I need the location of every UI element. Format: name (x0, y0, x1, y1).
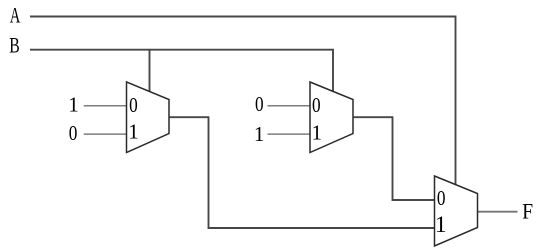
svg-text:1: 1 (435, 212, 447, 238)
svg-text:B: B (9, 32, 20, 57)
svg-text:0: 0 (129, 93, 138, 117)
svg-text:0: 0 (69, 121, 78, 145)
svg-text:1: 1 (68, 92, 79, 116)
svg-text:F: F (522, 199, 533, 224)
svg-text:0: 0 (312, 93, 321, 117)
svg-text:1: 1 (311, 121, 322, 145)
svg-text:0: 0 (437, 186, 446, 210)
svg-text:1: 1 (254, 122, 265, 146)
svg-text:A: A (10, 2, 21, 27)
svg-text:1: 1 (128, 119, 139, 143)
svg-text:0: 0 (255, 92, 264, 116)
